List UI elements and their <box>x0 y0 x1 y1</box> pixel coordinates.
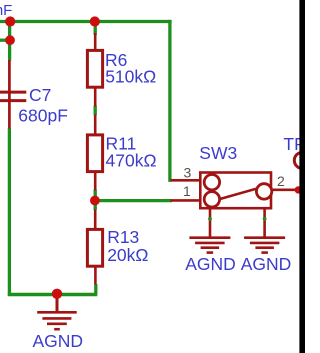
switch SW3 contact circle right <box>256 184 271 199</box>
wire right vertical net to SW3 pin 3 <box>168 20 171 182</box>
svg-text:AGND: AGND <box>241 254 292 274</box>
resistor R13 body <box>87 229 102 266</box>
wire stub top of R6 <box>94 20 97 35</box>
test point TP circle <box>294 152 310 168</box>
switch SW3 bottom-right pin <box>263 209 266 238</box>
svg-text:nF: nF <box>0 2 12 19</box>
ground AGND bottom pin <box>56 294 59 313</box>
node junction R11/R13/SW3 <box>90 196 100 206</box>
wire left edge stub <box>0 39 11 42</box>
window edge black bar <box>299 0 305 353</box>
ground AGND left symbol <box>189 238 230 253</box>
wire top horizontal net <box>0 20 172 23</box>
ground AGND bottom symbol <box>37 312 76 329</box>
switch SW3 pin 2 line <box>271 189 299 192</box>
resistor R13 bottom lead <box>94 266 97 285</box>
svg-text:20kΩ: 20kΩ <box>107 245 148 265</box>
node junction top-left on net <box>5 16 15 26</box>
resistor R11 bottom lead <box>94 172 97 191</box>
svg-text:3: 3 <box>184 164 192 180</box>
switch SW3 pin-end dot left <box>208 217 212 221</box>
node junction TP at pin 2 <box>295 186 302 193</box>
wire left vertical net (top) <box>8 20 11 61</box>
resistor R6 top lead <box>94 33 97 51</box>
svg-text:C7: C7 <box>29 85 51 105</box>
svg-text:2: 2 <box>277 173 285 189</box>
svg-text:510kΩ: 510kΩ <box>105 67 156 87</box>
resistor R11 top lead <box>94 115 97 136</box>
switch SW3 pin-end dot right <box>263 217 267 221</box>
resistor R6 body <box>87 50 102 87</box>
node junction left stub <box>5 35 15 45</box>
switch SW3 bottom-left pin <box>209 209 212 238</box>
wire between R11 and node <box>94 190 97 197</box>
svg-text:AGND: AGND <box>33 331 84 351</box>
resistor R6 bottom lead <box>94 87 97 107</box>
svg-text:SW3: SW3 <box>199 143 237 163</box>
resistor R13 top lead <box>94 210 97 231</box>
switch SW3 pin 3 line <box>171 179 201 182</box>
wire node to R13 <box>94 205 97 210</box>
wire bottom horizontal <box>8 293 98 296</box>
switch SW3 contact circle top-left <box>204 175 219 190</box>
wire below C7 vertical <box>8 128 11 296</box>
wire node to SW3 pin 1 <box>95 199 172 202</box>
capacitor C7 lead <box>8 60 11 129</box>
svg-text:1: 1 <box>183 183 191 199</box>
wire between R6 and R11 <box>94 106 97 116</box>
node junction bottom AGND tap <box>52 289 62 299</box>
svg-text:AGND: AGND <box>185 254 236 274</box>
resistor R11 body <box>87 135 102 172</box>
svg-text:680pF: 680pF <box>18 106 68 126</box>
capacitor C7 plate 2 <box>0 99 26 102</box>
switch SW3 lever <box>220 189 256 199</box>
node junction top at R6 <box>90 16 100 26</box>
ground AGND right symbol <box>244 238 285 253</box>
capacitor C7 plate 1 <box>0 91 26 94</box>
wire stub below R13 <box>94 284 97 294</box>
switch SW3 contact circle bottom-left <box>204 192 219 207</box>
svg-text:470kΩ: 470kΩ <box>106 151 157 171</box>
switch SW3 body <box>200 173 271 209</box>
switch SW3 pin 1 line <box>171 199 201 202</box>
